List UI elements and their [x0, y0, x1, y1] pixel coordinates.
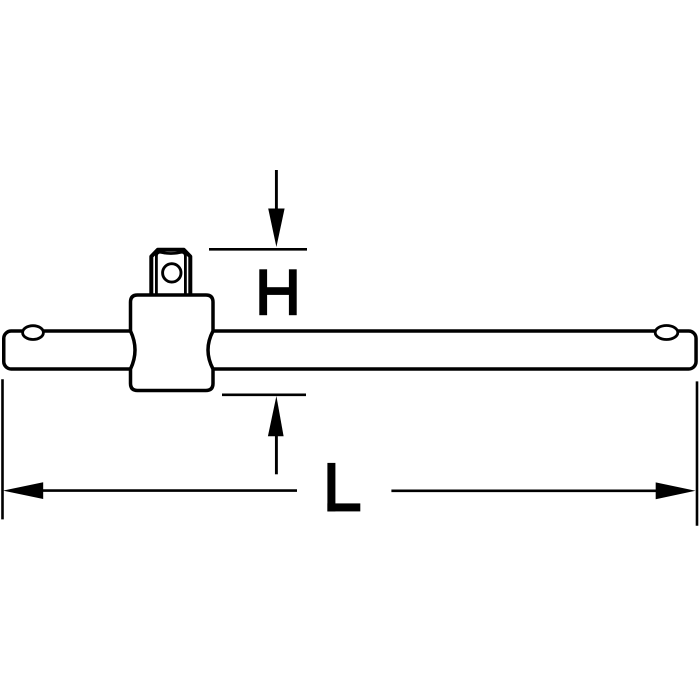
L dimension left arrowhead (pointing left)	[3, 482, 43, 499]
H dimension top tick line	[209, 248, 307, 251]
tang inner face line	[156, 252, 185, 296]
H dimension top arrowhead (pointing down)	[268, 209, 284, 248]
L dimension line left segment	[40, 489, 297, 492]
H dimension top arrow shaft	[275, 170, 278, 210]
right hanging hole (oval)	[655, 326, 678, 340]
sliding T-bar (main horizontal bar)	[4, 331, 696, 369]
H dimension bottom arrow shaft	[275, 436, 278, 475]
L dimension line right segment	[391, 489, 657, 492]
left hanging hole (oval)	[23, 326, 44, 340]
L dimension right arrowhead (pointing right)	[656, 482, 696, 499]
L dimension right extension line	[696, 381, 699, 525]
H label (drawn as exact bars)	[259, 269, 296, 315]
L dimension left extension line	[1, 379, 4, 519]
H dimension bottom tick line	[222, 393, 306, 396]
square drive tang (outer silhouette, chamfered top corners)	[151, 250, 190, 296]
H dimension bottom arrowhead (pointing up)	[268, 396, 284, 436]
sliding sleeve (center body with concave sides)	[131, 295, 214, 391]
tang pin hole (circle)	[163, 264, 181, 282]
L label (drawn as exact bars)	[327, 463, 360, 512]
